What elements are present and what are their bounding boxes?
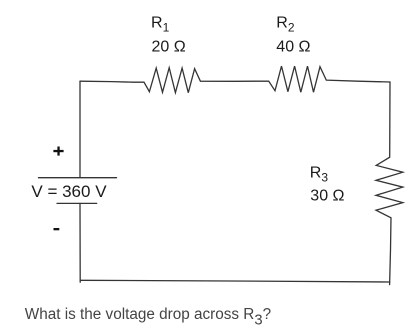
svg-text:30 Ω: 30 Ω bbox=[310, 188, 344, 205]
svg-text:R3: R3 bbox=[310, 165, 329, 185]
svg-text:40 Ω: 40 Ω bbox=[276, 38, 310, 55]
svg-text:R2: R2 bbox=[276, 14, 295, 34]
svg-text:20 Ω: 20 Ω bbox=[152, 38, 186, 55]
svg-text:V = 360 V: V = 360 V bbox=[31, 182, 107, 201]
svg-text:What is the voltage drop acros: What is the voltage drop across R3? bbox=[25, 306, 271, 328]
svg-text:R1: R1 bbox=[151, 14, 170, 34]
